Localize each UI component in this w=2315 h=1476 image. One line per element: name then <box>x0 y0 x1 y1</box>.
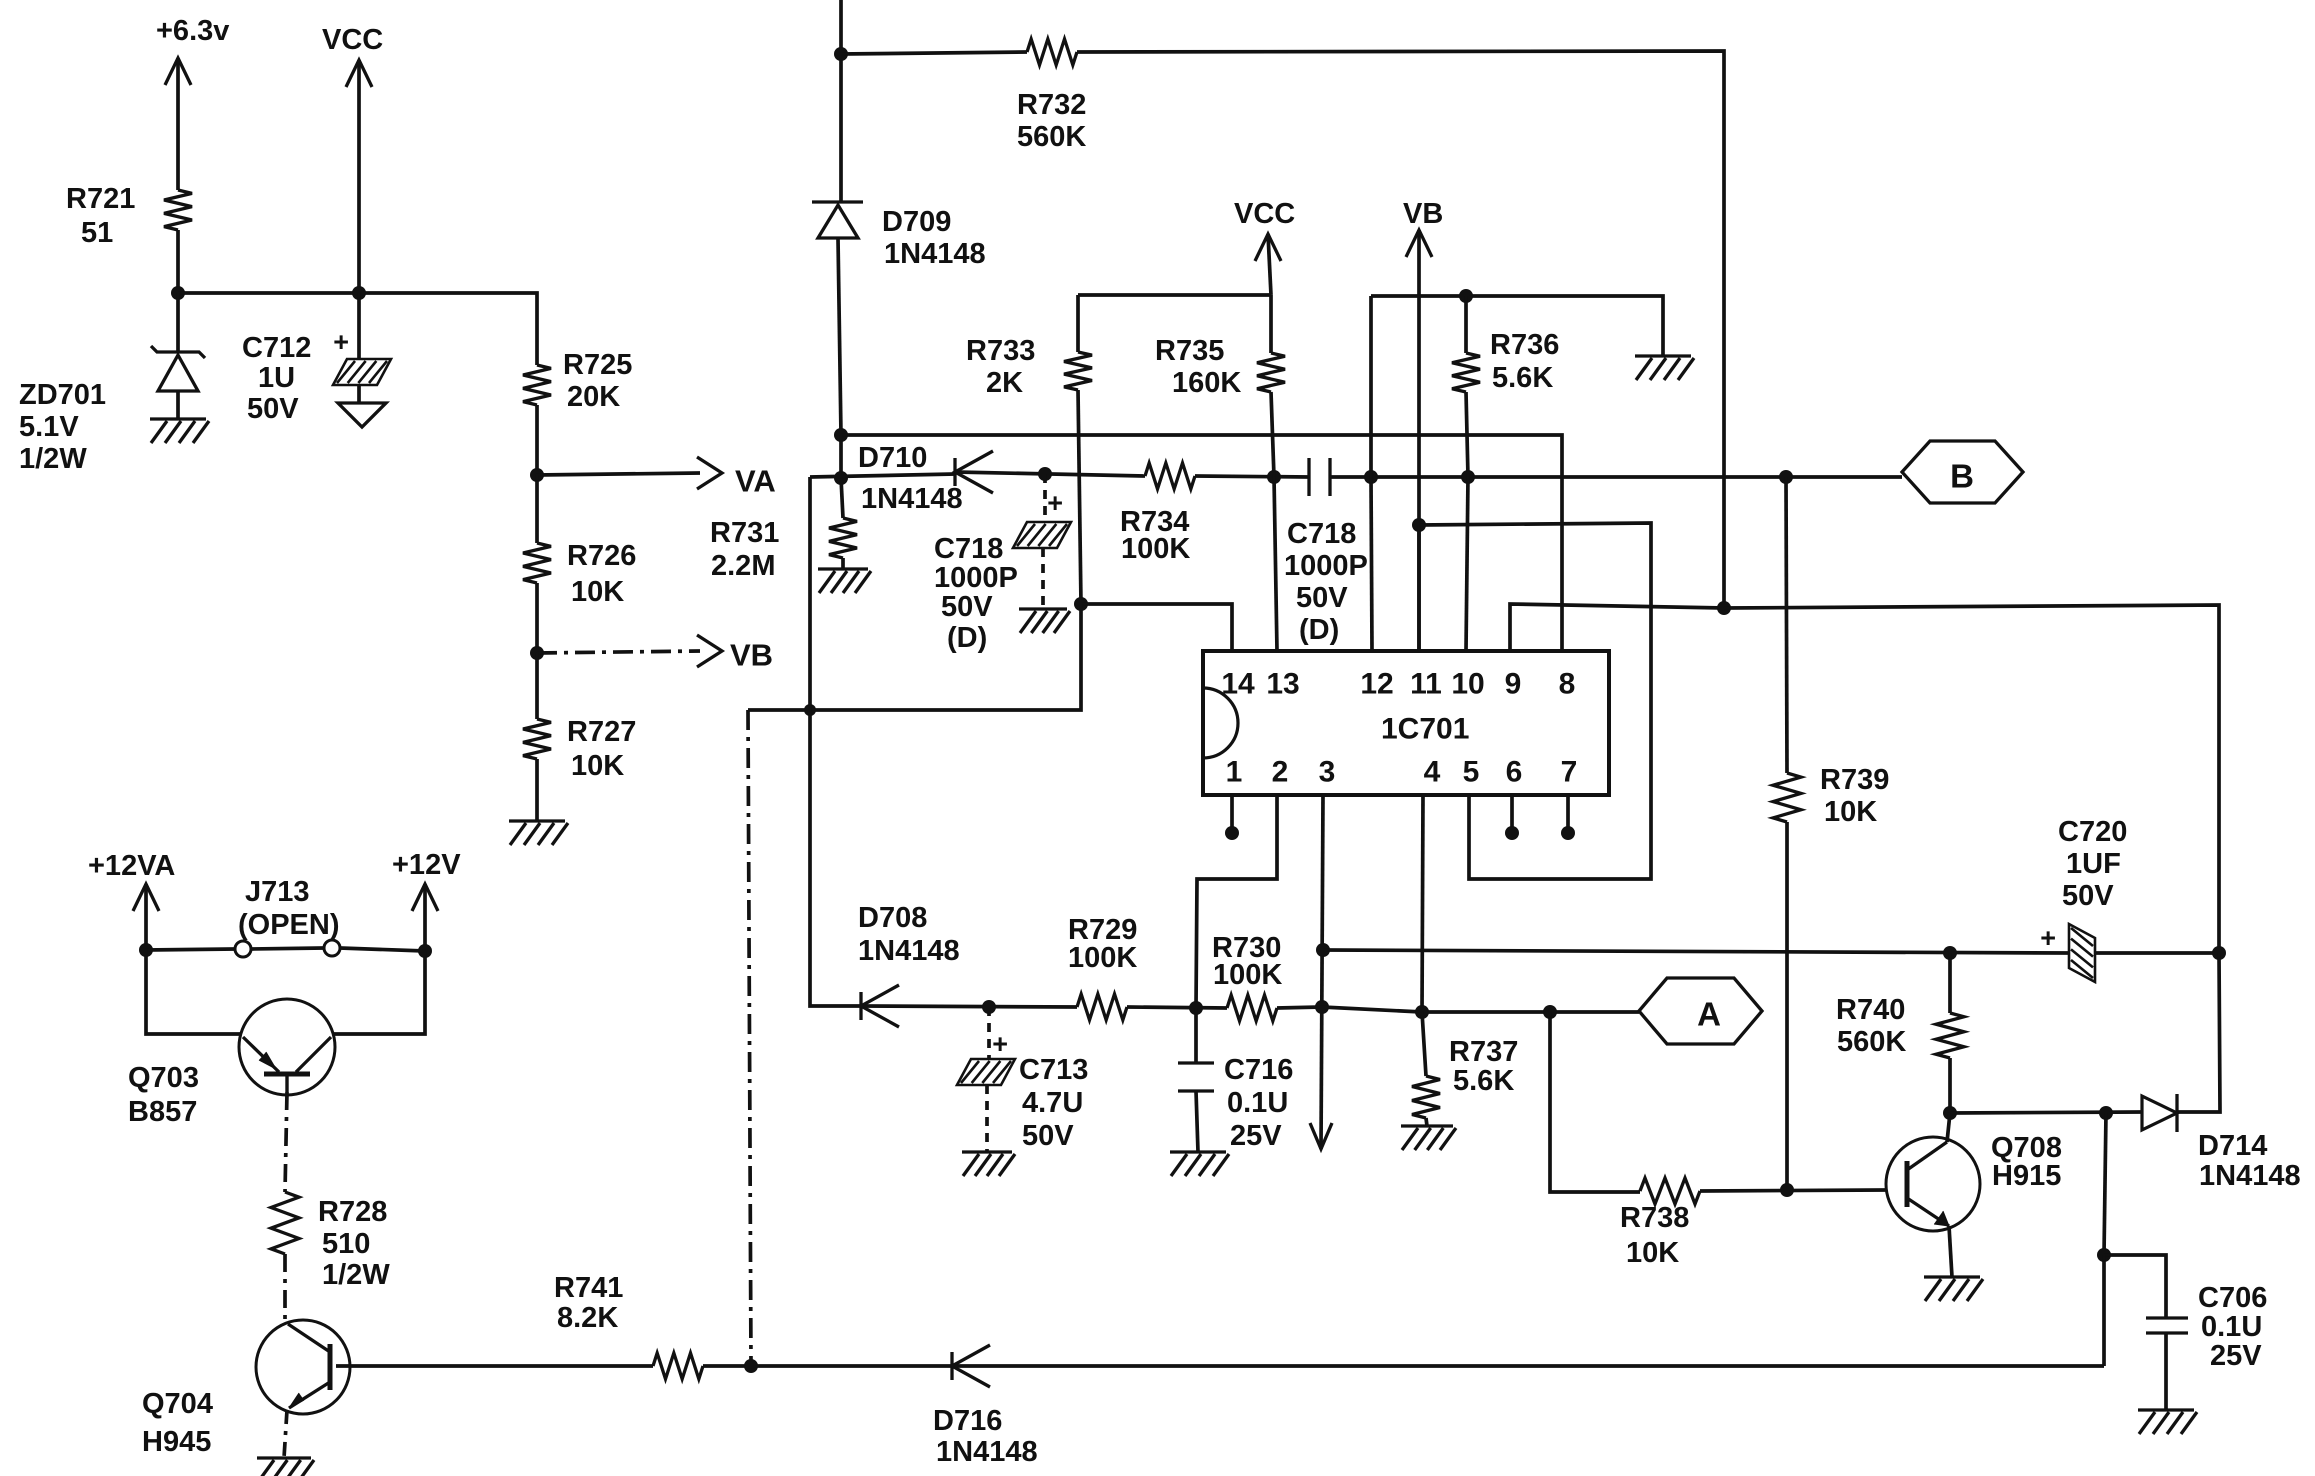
svg-text:1C701: 1C701 <box>1381 713 1469 746</box>
resistor R721 <box>66 183 192 249</box>
svg-text:14: 14 <box>1221 668 1255 701</box>
svg-text:+: + <box>333 327 349 357</box>
svg-text:6: 6 <box>1506 756 1523 789</box>
wire D710/B net left end <box>810 474 955 477</box>
wire pin10 <box>1466 477 1468 651</box>
svg-text:C713: C713 <box>1019 1054 1088 1086</box>
svg-text:2K: 2K <box>986 367 1023 399</box>
power +12VA <box>88 850 175 950</box>
svg-text:R737: R737 <box>1449 1036 1518 1068</box>
resistor R731 <box>710 478 857 582</box>
junction +12V <box>418 944 432 958</box>
junction R739 tap <box>1779 470 1793 484</box>
wire ground net y296 <box>1371 296 1663 356</box>
wire pin5 loop <box>1419 523 1651 879</box>
diode D708 <box>858 902 960 1027</box>
svg-text:5.1V: 5.1V <box>19 411 79 443</box>
diode D716 <box>933 1345 1038 1468</box>
svg-text:1: 1 <box>1226 756 1243 789</box>
ground R737 <box>1401 1126 1456 1150</box>
resistor R726 <box>523 540 636 608</box>
power +12V <box>392 849 461 951</box>
capacitor C716 <box>1178 1008 1293 1152</box>
svg-text:50V: 50V <box>941 591 993 623</box>
svg-text:5.6K: 5.6K <box>1492 362 1553 394</box>
svg-text:(OPEN): (OPEN) <box>238 909 340 941</box>
svg-text:R726: R726 <box>567 540 636 572</box>
resistor R729 <box>1068 914 1137 1020</box>
junction C706 riser <box>2099 1106 2113 1120</box>
wire pin9 <box>1510 604 1724 651</box>
svg-text:160K: 160K <box>1172 367 1241 399</box>
wire D709 node to D710 wire <box>839 435 843 478</box>
svg-text:R735: R735 <box>1155 335 1224 367</box>
ic pin numbers bottom <box>1226 756 1578 789</box>
wire pin12 riser <box>1369 296 1373 477</box>
wire Q703 base (dash-dot) <box>285 1092 287 1192</box>
power VCC left <box>322 24 383 293</box>
wire R727 to ground <box>535 759 539 821</box>
wire pin4 <box>1422 795 1423 1013</box>
svg-text:+: + <box>2040 923 2056 953</box>
svg-text:R732: R732 <box>1017 89 1086 121</box>
wire R729 to R730 <box>1127 1007 1227 1008</box>
wire VA node to R726 <box>535 475 539 543</box>
svg-text:(D): (D) <box>947 622 987 654</box>
jumper J713 <box>146 876 425 957</box>
junction C713 tap <box>982 1000 996 1014</box>
arrow pin3 end <box>1310 1123 1332 1149</box>
ground ZD701 <box>150 419 209 443</box>
svg-text:R728: R728 <box>318 1196 387 1228</box>
svg-text:7: 7 <box>1561 756 1578 789</box>
svg-text:20K: 20K <box>567 381 620 413</box>
svg-text:10K: 10K <box>1626 1237 1679 1269</box>
wire R741 to D716 <box>703 1364 952 1368</box>
ground C706 <box>2138 1410 2197 1434</box>
wire pin14 link <box>1081 604 1232 651</box>
wire VB node to R727 <box>535 653 539 719</box>
junction pin10/R736 node <box>1461 470 1475 484</box>
junction VCC rail <box>352 286 366 300</box>
ground C718a <box>1019 609 1070 633</box>
wire D716 to C706 riser <box>952 1364 2104 1368</box>
wire pin8 net <box>841 435 1562 651</box>
svg-text:R738: R738 <box>1620 1202 1689 1234</box>
resistor R737 <box>1412 1012 1518 1126</box>
svg-text:C720: C720 <box>2058 816 2127 848</box>
junction +6.3v rail <box>171 286 185 300</box>
resistor R741 <box>554 1272 703 1379</box>
svg-text:Q703: Q703 <box>128 1062 199 1094</box>
power +6.3v <box>156 15 229 190</box>
svg-text:8: 8 <box>1559 668 1576 701</box>
wire C718 to B hexagon <box>1330 475 1902 479</box>
svg-text:10: 10 <box>1451 668 1484 701</box>
wire R738 riser <box>1550 1012 1640 1192</box>
wire R726 to VB node <box>535 583 539 653</box>
ground net y296 <box>1635 356 1694 380</box>
svg-text:4: 4 <box>1424 756 1441 789</box>
wire top feed <box>839 0 843 202</box>
power VCC mid <box>1234 198 1295 295</box>
capacitor C706 <box>2104 1255 2267 1410</box>
resistor R725 <box>523 349 632 413</box>
resistor R740 <box>1836 953 1964 1113</box>
svg-text:0.1U: 0.1U <box>1227 1087 1288 1119</box>
junction VB/pin5 node <box>1412 518 1426 532</box>
svg-text:50V: 50V <box>2062 880 2114 912</box>
wire rail corner to R725 <box>535 293 537 365</box>
capacitor C713 (electrolytic) <box>957 1007 1088 1152</box>
svg-text:R721: R721 <box>66 183 135 215</box>
svg-text:50V: 50V <box>247 393 299 425</box>
svg-text:1/2W: 1/2W <box>19 443 87 475</box>
power VB mid <box>1403 198 1443 651</box>
svg-text:ZD701: ZD701 <box>19 379 106 411</box>
svg-text:13: 13 <box>1266 668 1299 701</box>
svg-text:3: 3 <box>1319 756 1336 789</box>
svg-text:4.7U: 4.7U <box>1022 1087 1083 1119</box>
wire pin9 net to right <box>1724 605 2219 953</box>
junction +12VA <box>139 943 153 957</box>
svg-text:D708: D708 <box>858 902 927 934</box>
ic pin numbers top <box>1221 668 1575 701</box>
svg-text:1UF: 1UF <box>2066 848 2121 880</box>
ground C713 <box>962 1152 1015 1176</box>
wire Q704 emitter (dash-dot) <box>284 1410 287 1458</box>
svg-text:R727: R727 <box>567 716 636 748</box>
svg-text:C706: C706 <box>2198 1282 2267 1314</box>
svg-text:B: B <box>1950 458 1974 495</box>
svg-text:(D): (D) <box>1299 614 1339 646</box>
wire Q704 base to R741 <box>336 1364 653 1368</box>
junction pin14 wire <box>1074 597 1088 611</box>
svg-text:12: 12 <box>1360 668 1393 701</box>
diode D709 <box>812 202 986 270</box>
svg-text:C716: C716 <box>1224 1054 1293 1086</box>
ground R727 <box>509 821 568 845</box>
svg-text:D709: D709 <box>882 206 951 238</box>
wire VA arrow <box>537 457 722 489</box>
svg-text:560K: 560K <box>1017 121 1086 153</box>
resistor R738 <box>1620 1178 1700 1269</box>
node A hexagon <box>1639 978 1762 1044</box>
wire C706 riser <box>2104 1113 2106 1255</box>
svg-text:R733: R733 <box>966 335 1035 367</box>
junction bottom wire <box>744 1359 758 1373</box>
wire D714 to C720 riser <box>2177 953 2220 1112</box>
junction R738/R739 node <box>1780 1183 1794 1197</box>
svg-text:Q704: Q704 <box>142 1388 213 1420</box>
wire R721 to junction <box>176 230 180 293</box>
wire R734 to C718 <box>1195 476 1309 477</box>
wire pin6 stub <box>1505 795 1519 840</box>
node B hexagon <box>1902 441 2023 503</box>
wire R732 right to down <box>1077 51 1724 611</box>
svg-text:2: 2 <box>1272 756 1289 789</box>
svg-text:1N4148: 1N4148 <box>2199 1160 2301 1192</box>
svg-text:5.6K: 5.6K <box>1453 1065 1514 1097</box>
transistor Q703 <box>128 999 335 1128</box>
ground C712 (triangle) <box>338 403 386 427</box>
svg-text:510: 510 <box>322 1228 370 1260</box>
junction C720/pin9 net <box>2212 946 2226 960</box>
wire VB arrow (dash-dot) <box>537 635 722 667</box>
wire C720 net right <box>2094 951 2219 955</box>
wire pin2 <box>1196 795 1277 1008</box>
wire Q708 emitter <box>1949 1226 1952 1277</box>
junction C718a tap <box>1038 467 1052 481</box>
svg-text:2.2M: 2.2M <box>711 550 775 582</box>
svg-text:J713: J713 <box>245 876 310 908</box>
svg-text:50V: 50V <box>1296 582 1348 614</box>
diode D710 <box>858 442 993 515</box>
svg-text:R736: R736 <box>1490 329 1559 361</box>
wire R725 to VA node <box>535 405 539 475</box>
junction D710 wire <box>834 471 848 485</box>
svg-text:VB: VB <box>1403 198 1443 230</box>
capacitor C718 (series) <box>1284 458 1368 646</box>
wire Q708 collector <box>1947 1113 1950 1142</box>
svg-text:1000P: 1000P <box>1284 550 1368 582</box>
ground C716 <box>1170 1152 1229 1176</box>
svg-text:1N4148: 1N4148 <box>936 1436 1038 1468</box>
svg-text:R740: R740 <box>1836 994 1905 1026</box>
node VB <box>730 638 773 673</box>
svg-text:+12V: +12V <box>392 849 461 881</box>
wire +6.3v rail <box>178 291 535 295</box>
svg-text:B857: B857 <box>128 1096 197 1128</box>
resistor R739 <box>1773 477 1889 1190</box>
wire Q703 emitter feed <box>146 950 241 1034</box>
junction pin13/R735 node <box>1267 470 1281 484</box>
svg-text:1/2W: 1/2W <box>322 1259 390 1291</box>
svg-text:0.1U: 0.1U <box>2201 1311 2262 1343</box>
wire Q703 collector feed <box>333 951 425 1034</box>
svg-text:H945: H945 <box>142 1426 211 1458</box>
junction loop crossing <box>804 704 816 716</box>
junction R732 tap <box>834 47 848 61</box>
wire D709 to wire435 <box>838 238 841 435</box>
svg-text:C718: C718 <box>1287 518 1356 550</box>
wire pin13 <box>1274 477 1277 651</box>
svg-text:A: A <box>1697 996 1721 1033</box>
svg-text:R739: R739 <box>1820 764 1889 796</box>
svg-text:+: + <box>1047 488 1063 518</box>
resistor R727 <box>523 716 636 782</box>
svg-text:10K: 10K <box>571 576 624 608</box>
junction VA node <box>530 468 544 482</box>
wire R732 left <box>841 52 1027 54</box>
wire pin3 <box>1321 795 1323 1149</box>
svg-text:+12VA: +12VA <box>88 850 175 882</box>
junction Q708 collector node <box>1943 1106 1957 1120</box>
wire loop to D708 net <box>748 604 1081 1366</box>
svg-text:10K: 10K <box>1824 796 1877 828</box>
resistor R728 <box>271 1192 390 1291</box>
svg-text:560K: 560K <box>1837 1026 1906 1058</box>
wire C706 node to bottom wire <box>2102 1255 2106 1366</box>
zener ZD701 <box>19 346 205 475</box>
svg-text:C718: C718 <box>934 533 1003 565</box>
svg-text:100K: 100K <box>1068 942 1137 974</box>
svg-text:R741: R741 <box>554 1272 623 1304</box>
ground R731 <box>818 569 871 593</box>
capacitor C720 <box>2040 816 2127 982</box>
svg-text:25V: 25V <box>1230 1120 1282 1152</box>
svg-text:1N4148: 1N4148 <box>861 483 963 515</box>
wire pin7 stub <box>1561 795 1575 840</box>
svg-text:5: 5 <box>1463 756 1480 789</box>
wire R721 junction to ZD701 <box>176 293 180 352</box>
svg-text:+: + <box>992 1029 1008 1059</box>
svg-text:10K: 10K <box>571 750 624 782</box>
capacitor C712 <box>242 293 391 425</box>
wire D710 to R734 <box>955 472 1145 476</box>
junction pin2/C716 node <box>1189 1001 1203 1015</box>
svg-text:D710: D710 <box>858 442 927 474</box>
svg-text:100K: 100K <box>1213 959 1282 991</box>
wire D708 to R729 <box>861 1006 1077 1007</box>
svg-text:11: 11 <box>1410 668 1442 701</box>
wire C720 net left <box>1323 950 2070 953</box>
wire D714 net <box>1950 1112 2142 1113</box>
junction R738 tap <box>1543 1005 1557 1019</box>
resistor R735 <box>1155 295 1285 477</box>
diode D714 <box>2142 1094 2301 1192</box>
svg-text:R725: R725 <box>563 349 632 381</box>
svg-text:51: 51 <box>81 217 113 249</box>
resistor R733 <box>966 295 1092 604</box>
wire R738 to Q708 base <box>1700 1190 1886 1191</box>
svg-text:1N4148: 1N4148 <box>884 238 986 270</box>
svg-text:1000P: 1000P <box>934 562 1018 594</box>
ground Q704 <box>257 1458 314 1476</box>
svg-text:D714: D714 <box>2198 1130 2267 1162</box>
svg-text:VA: VA <box>735 464 776 499</box>
wire pin11 (VB) <box>1417 525 1421 651</box>
junction pin9/R732 node <box>1717 601 1731 615</box>
svg-text:C712: C712 <box>242 332 311 364</box>
svg-text:1U: 1U <box>258 362 295 394</box>
capacitor C718 (electrolytic) <box>934 474 1071 654</box>
svg-text:25V: 25V <box>2210 1340 2262 1372</box>
junction R740 top <box>1943 946 1957 960</box>
svg-text:1N4148: 1N4148 <box>858 935 960 967</box>
transistor Q704 <box>142 1320 350 1458</box>
junction pin3/C720 net <box>1316 943 1330 957</box>
wire pin12 <box>1371 477 1372 651</box>
svg-text:VCC: VCC <box>322 24 383 56</box>
svg-text:R731: R731 <box>710 517 779 549</box>
svg-text:D716: D716 <box>933 1405 1002 1437</box>
junction C706 node <box>2097 1248 2111 1262</box>
resistor R730 <box>1212 932 1282 1021</box>
junction VB node <box>530 646 544 660</box>
svg-text:VCC: VCC <box>1234 198 1295 230</box>
junction pin3/R730 node <box>1315 1000 1329 1014</box>
resistor R734 <box>1120 463 1195 565</box>
junction pin4/R737 node <box>1415 1005 1429 1019</box>
wire pin1 stub <box>1225 795 1239 840</box>
resistor R732 <box>1017 39 1086 153</box>
junction R736 top <box>1459 289 1473 303</box>
ground Q708 <box>1924 1277 1983 1301</box>
svg-text:VB: VB <box>730 638 773 673</box>
transistor Q708 <box>1886 1132 2062 1231</box>
ic 1C701 body <box>1203 651 1609 795</box>
wire D710node down to D708 <box>810 477 861 1006</box>
svg-text:H915: H915 <box>1992 1160 2061 1192</box>
wire R730 to A hexagon <box>1277 1007 1639 1012</box>
wire R733 top to VCC <box>1078 293 1271 297</box>
junction wire435 <box>834 428 848 442</box>
wire R728 to Q704 collector (dash-dot) <box>283 1254 287 1322</box>
resistor R736 <box>1452 296 1559 477</box>
svg-text:100K: 100K <box>1121 533 1190 565</box>
svg-text:8.2K: 8.2K <box>557 1302 618 1334</box>
svg-text:50V: 50V <box>1022 1120 1074 1152</box>
svg-text:+6.3v: +6.3v <box>156 15 229 47</box>
svg-text:9: 9 <box>1505 668 1522 701</box>
junction pin12 node <box>1364 470 1378 484</box>
node VA <box>735 464 776 499</box>
